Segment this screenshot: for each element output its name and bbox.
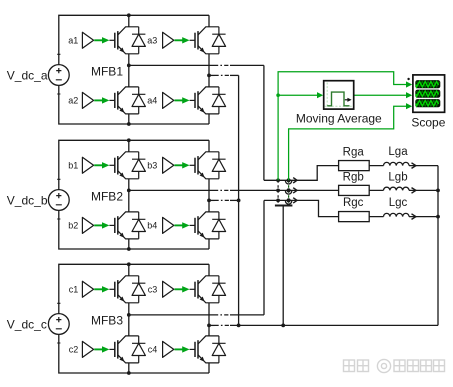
wire MFB2 leg1 (128, 140, 130, 249)
svg-text:c2: c2 (69, 345, 79, 355)
wire right bus (437, 166, 439, 326)
svg-text:Rgc: Rgc (343, 197, 364, 209)
svg-text:a4: a4 (147, 96, 157, 106)
block Moving Average U1 (324, 81, 354, 109)
transistor cell a2 (82, 87, 145, 114)
transistor cell a3 (163, 27, 226, 54)
resistor Rgb (339, 185, 370, 195)
voltage source V_dc_c (48, 303, 69, 343)
wire MFB1 out2 (209, 74, 215, 76)
node tap dots (276, 178, 280, 182)
svg-text:a1: a1 (68, 36, 78, 46)
measurement tap dashed link (277, 180, 279, 205)
svg-text:Lga: Lga (388, 146, 408, 158)
wire phase a line (264, 166, 438, 181)
sensor dashed link (288, 180, 290, 205)
transistor cell c4 (163, 336, 226, 363)
wire MFB1 leg2 (208, 15, 210, 124)
svg-text:c4: c4 (148, 345, 158, 355)
wire MFB2 out1 phase b (129, 189, 214, 191)
voltage source V_dc_b (48, 179, 69, 219)
sensor common bar (275, 205, 293, 207)
wire MFB1 frame (59, 15, 209, 124)
wire MFB2 out2 (209, 199, 215, 201)
node neutral junctions (237, 199, 241, 203)
svg-text:V_dc_c: V_dc_c (7, 317, 47, 331)
svg-text:b2: b2 (68, 221, 78, 231)
transistor cell b1 (82, 152, 145, 179)
wire green measurement v (278, 72, 407, 181)
inductor Lgb (384, 187, 416, 193)
wire MFB3 leg2 (208, 264, 210, 373)
svg-text:MFB1: MFB1 (91, 65, 123, 79)
wire green to moving average (278, 94, 317, 96)
wire MFB1 leg1 (128, 15, 130, 124)
svg-text:Rga: Rga (343, 146, 365, 158)
svg-text:V_dc_a: V_dc_a (7, 68, 48, 82)
svg-text:Scope: Scope (411, 116, 445, 130)
wire phase c line (264, 200, 438, 216)
current sensor phase a (285, 178, 297, 184)
resistor Rga (339, 161, 370, 171)
svg-text:b3: b3 (147, 161, 157, 171)
watermark (344, 359, 445, 372)
wire neutral bus vertical (238, 75, 240, 325)
wire green current signal (289, 106, 407, 180)
svg-text:Lgb: Lgb (388, 171, 407, 183)
current sensor phase b (285, 188, 297, 194)
node green junction (276, 93, 280, 97)
wire MFB3 leg1 (128, 264, 130, 373)
transistor cell b4 (163, 212, 226, 239)
wire MFB3 out1 (129, 314, 214, 316)
wire MFB3 out2 neutral return (209, 324, 215, 326)
svg-text:V_dc_b: V_dc_b (7, 193, 48, 207)
voltage source V_dc_a (48, 54, 69, 94)
svg-text:c3: c3 (148, 285, 158, 295)
svg-text:b4: b4 (147, 221, 157, 231)
node MFB1 junctions (127, 13, 131, 17)
svg-text:c1: c1 (69, 285, 79, 295)
transistor cell c1 (82, 276, 145, 303)
wire MFB3 frame (59, 264, 209, 373)
svg-text:b1: b1 (68, 161, 78, 171)
node MFB3 junctions (127, 262, 131, 266)
wire sensor common stem (282, 206, 284, 326)
svg-text:Lgc: Lgc (389, 197, 408, 209)
wire MFB2 leg2 (208, 140, 210, 249)
block Scope (413, 75, 445, 112)
wire MFB2 frame (59, 140, 209, 249)
inductor Lga (384, 162, 416, 168)
transistor cell b2 (82, 212, 145, 239)
svg-text:Rgb: Rgb (343, 171, 364, 183)
transistor cell b3 (163, 152, 226, 179)
resistor Rgc (339, 212, 370, 222)
transistor cell c3 (163, 276, 226, 303)
svg-text:a3: a3 (147, 36, 157, 46)
wire MFB1 out1 (129, 64, 214, 66)
svg-text:Moving Average: Moving Average (296, 112, 382, 126)
current sensor phase c (285, 198, 297, 204)
transistor cell a1 (82, 27, 145, 54)
wire green moving average out (354, 94, 408, 96)
svg-text:a2: a2 (68, 96, 78, 106)
wire phase b tail (369, 189, 438, 191)
node MFB2 junctions (127, 138, 131, 142)
svg-text:MFB2: MFB2 (91, 190, 123, 204)
transistor cell a4 (163, 87, 226, 114)
svg-text:MFB3: MFB3 (91, 314, 123, 328)
transistor cell c2 (82, 336, 145, 363)
inductor Lgc (384, 213, 416, 219)
